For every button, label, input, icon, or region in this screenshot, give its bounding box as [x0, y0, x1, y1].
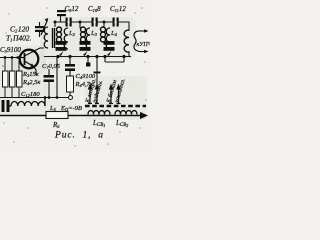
svg-text:R315к: R315к — [22, 71, 40, 78]
svg-text:L4: L4 — [110, 30, 118, 37]
svg-text:C2120: C2120 — [10, 25, 29, 34]
svg-text:Рис. 1, а: Рис. 1, а — [54, 131, 104, 141]
svg-text:кУПЧ: кУПЧ — [137, 42, 151, 48]
svg-text:C70,05: C70,05 — [42, 63, 61, 70]
svg-text:L2: L2 — [68, 30, 76, 37]
svg-text:ЕП=-9В: ЕП=-9В — [60, 105, 82, 112]
svg-text:C912: C912 — [65, 5, 79, 13]
svg-text:L3: L3 — [90, 30, 98, 37]
svg-text:L5: L5 — [49, 105, 57, 112]
svg-text:C1112: C1112 — [110, 5, 126, 13]
svg-text:C39100: C39100 — [0, 46, 21, 54]
svg-text:T1П402.: T1П402. — [6, 34, 32, 43]
svg-text:R42,5к: R42,5к — [22, 79, 41, 86]
